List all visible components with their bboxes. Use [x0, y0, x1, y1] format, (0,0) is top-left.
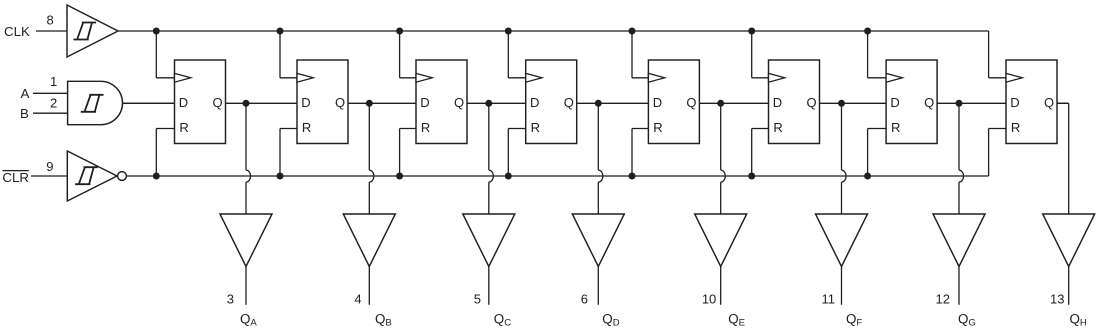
svg-text:Q: Q: [1044, 95, 1054, 110]
svg-text:R: R: [1011, 120, 1020, 135]
svg-text:QE: QE: [728, 312, 745, 329]
svg-text:8: 8: [47, 12, 54, 27]
svg-text:R: R: [179, 120, 188, 135]
svg-text:Q: Q: [335, 95, 345, 110]
svg-text:Q: Q: [924, 95, 934, 110]
svg-text:B: B: [20, 106, 29, 121]
svg-text:Q: Q: [213, 95, 223, 110]
svg-text:QC: QC: [494, 312, 511, 329]
svg-text:D: D: [301, 95, 310, 110]
svg-text:QB: QB: [375, 312, 392, 329]
svg-text:10: 10: [702, 291, 716, 306]
svg-text:A: A: [21, 86, 30, 101]
svg-text:QH: QH: [1070, 312, 1087, 329]
svg-text:D: D: [890, 95, 899, 110]
svg-text:Q: Q: [454, 95, 464, 110]
svg-text:9: 9: [46, 159, 53, 174]
svg-text:QD: QD: [602, 312, 619, 329]
svg-text:D: D: [773, 95, 782, 110]
svg-text:QA: QA: [240, 312, 257, 329]
svg-text:Q: Q: [807, 95, 817, 110]
svg-text:D: D: [530, 95, 539, 110]
svg-text:6: 6: [581, 291, 588, 306]
svg-text:D: D: [179, 95, 188, 110]
svg-text:12: 12: [936, 291, 950, 306]
svg-text:R: R: [421, 120, 430, 135]
svg-text:Q: Q: [564, 95, 574, 110]
svg-text:R: R: [891, 120, 900, 135]
svg-text:QG: QG: [958, 312, 976, 329]
svg-text:2: 2: [50, 95, 57, 110]
svg-text:R: R: [302, 120, 311, 135]
svg-text:Q: Q: [686, 95, 696, 110]
svg-text:3: 3: [227, 291, 234, 306]
svg-text:D: D: [420, 95, 429, 110]
svg-text:R: R: [653, 120, 662, 135]
svg-text:CLK: CLK: [4, 24, 30, 39]
svg-text:D: D: [653, 95, 662, 110]
svg-text:4: 4: [354, 291, 361, 306]
svg-text:D: D: [1010, 95, 1019, 110]
svg-text:R: R: [773, 120, 782, 135]
svg-text:R: R: [531, 120, 540, 135]
svg-text:11: 11: [822, 291, 836, 306]
svg-text:CLR: CLR: [2, 170, 29, 185]
svg-text:QF: QF: [846, 312, 862, 329]
svg-text:13: 13: [1050, 291, 1064, 306]
svg-text:5: 5: [474, 291, 481, 306]
svg-text:1: 1: [50, 74, 57, 89]
